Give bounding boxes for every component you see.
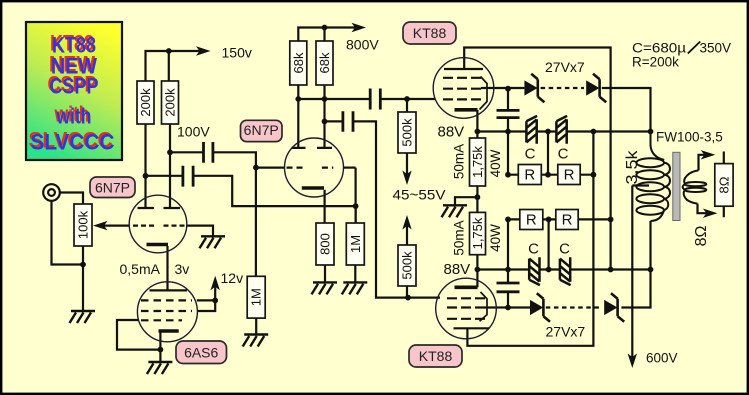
svg-text:C=680µ: C=680µ <box>632 41 686 56</box>
svg-text:40W: 40W <box>488 224 503 252</box>
svg-text:FW100-3,5: FW100-3,5 <box>656 130 723 145</box>
svg-text:150v: 150v <box>222 45 252 61</box>
svg-text:R: R <box>562 212 573 229</box>
svg-text:1M: 1M <box>249 288 264 306</box>
svg-text:50mA: 50mA <box>452 220 467 255</box>
svg-text:6N7P: 6N7P <box>95 179 130 195</box>
svg-text:R=200k: R=200k <box>632 55 679 70</box>
svg-text:40W: 40W <box>488 149 503 177</box>
svg-text:100V: 100V <box>177 124 210 140</box>
svg-text:1,75k: 1,75k <box>470 146 485 178</box>
svg-text:8Ω: 8Ω <box>693 226 710 247</box>
svg-text:KT88: KT88 <box>419 348 453 364</box>
svg-text:500k: 500k <box>400 251 415 280</box>
svg-text:6AS6: 6AS6 <box>184 345 218 361</box>
svg-text:50mA: 50mA <box>452 144 467 179</box>
svg-text:88V: 88V <box>438 124 465 141</box>
svg-text:KT88: KT88 <box>413 25 447 41</box>
svg-text:45~55V: 45~55V <box>393 187 447 203</box>
svg-text:0,5mA: 0,5mA <box>120 261 161 277</box>
svg-text:3v: 3v <box>175 261 190 277</box>
svg-text:12v: 12v <box>221 270 244 286</box>
svg-text:350V: 350V <box>700 41 732 56</box>
svg-text:1M: 1M <box>348 235 363 253</box>
svg-text:6N7P: 6N7P <box>244 122 279 138</box>
svg-text:800V: 800V <box>346 37 379 53</box>
svg-text:100k: 100k <box>76 210 91 239</box>
svg-text:8Ω: 8Ω <box>717 176 732 193</box>
svg-text:R: R <box>526 212 537 229</box>
svg-text:27Vx7: 27Vx7 <box>546 324 586 340</box>
svg-text:800: 800 <box>318 233 333 255</box>
svg-text:3,5k: 3,5k <box>624 150 641 184</box>
svg-text:500k: 500k <box>400 118 415 147</box>
svg-text:CSPP: CSPP <box>50 74 99 99</box>
svg-text:88V: 88V <box>444 261 471 278</box>
svg-text:68k: 68k <box>291 52 306 73</box>
svg-text:600V: 600V <box>646 351 678 366</box>
svg-text:R: R <box>564 167 575 184</box>
svg-text:27Vx7: 27Vx7 <box>545 59 585 75</box>
svg-text:R: R <box>524 167 535 184</box>
svg-text:SLVCCC: SLVCCC <box>31 130 115 155</box>
svg-text:C: C <box>528 241 539 258</box>
svg-text:with: with <box>56 104 92 129</box>
svg-text:C: C <box>525 146 536 163</box>
svg-text:1,75k: 1,75k <box>470 217 485 249</box>
svg-text:200k: 200k <box>138 88 153 117</box>
svg-text:200k: 200k <box>163 88 178 117</box>
svg-text:C: C <box>559 241 570 258</box>
svg-text:C: C <box>558 146 569 163</box>
svg-text:68k: 68k <box>317 52 332 73</box>
